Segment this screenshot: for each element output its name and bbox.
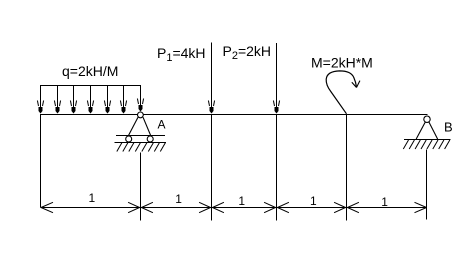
svg-text:1: 1 bbox=[381, 195, 388, 209]
svg-text:B: B bbox=[444, 120, 453, 135]
svg-text:1: 1 bbox=[310, 194, 317, 208]
svg-text:M=2kH*M: M=2kH*M bbox=[311, 55, 373, 71]
svg-text:A: A bbox=[158, 118, 166, 132]
svg-text:1: 1 bbox=[89, 191, 96, 205]
svg-text:1: 1 bbox=[238, 194, 245, 208]
svg-text:1: 1 bbox=[175, 192, 182, 206]
svg-text:q=2kH/M: q=2kH/M bbox=[62, 63, 118, 79]
